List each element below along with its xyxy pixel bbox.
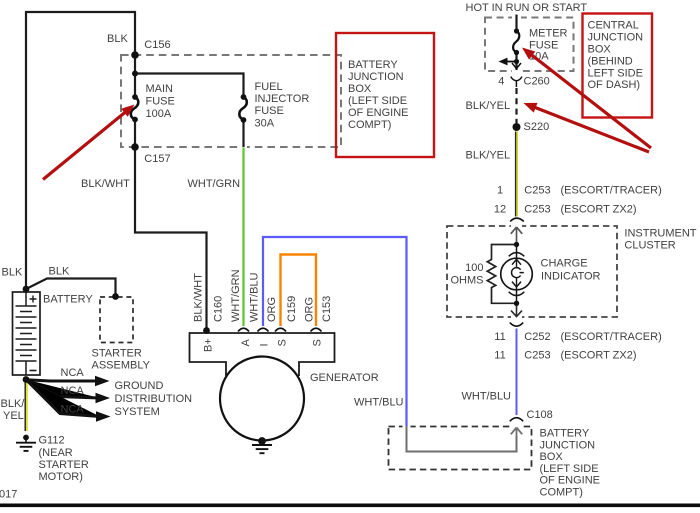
svg-text:OF DASH): OF DASH) (588, 79, 641, 91)
NCA line 1 to ground distribution (26, 380, 99, 381)
wire hot feed into central junction box (515, 15, 517, 32)
wire node C156 to main fuse branch point (134, 55, 136, 97)
wire BLK/YEL striped S220 to C253 (black stripe) (515, 132, 517, 217)
svg-text:30A: 30A (255, 118, 275, 130)
svg-text:I: I (259, 343, 271, 346)
node B+ at C160 (203, 327, 210, 334)
wire fuel injector fuse bottom to box edge (242, 120, 244, 147)
svg-text:BOX: BOX (348, 83, 372, 95)
svg-text:100A: 100A (146, 108, 172, 120)
node C156 (131, 51, 139, 59)
battery junction box (bottom, dashed outline) (389, 427, 532, 470)
svg-text:JUNCTION: JUNCTION (348, 71, 404, 83)
connector C260 symbol (female funnel) (511, 77, 522, 87)
generator terminal strip (190, 333, 335, 376)
svg-text:GROUND: GROUND (115, 380, 164, 392)
connector arc at generator A pin (238, 328, 249, 331)
svg-text:NCA: NCA (61, 367, 85, 379)
main fuse terminals (132, 94, 138, 100)
svg-text:DISTRIBUTION: DISTRIBUTION (115, 393, 193, 405)
generator case ground symbol (252, 441, 272, 454)
wire meter fuse to splice (515, 53, 517, 71)
svg-text:C157: C157 (144, 153, 170, 165)
svg-text:CLUSTER: CLUSTER (624, 240, 675, 252)
wire BLK top-left loop (battery positive feed) (26, 12, 135, 289)
node C157 (131, 143, 139, 151)
battery symbol (13, 292, 41, 375)
svg-text:INJECTOR: INJECTOR (255, 93, 310, 105)
svg-text:INDICATOR: INDICATOR (541, 271, 601, 283)
svg-text:11: 11 (494, 331, 505, 343)
svg-text:C252: C252 (524, 331, 550, 343)
svg-text:C108: C108 (527, 409, 553, 421)
svg-text:(ESCORT ZX2): (ESCORT ZX2) (561, 204, 637, 216)
connector C253 symbol (female cap above instrument cluster) (510, 218, 524, 221)
svg-text:C260: C260 (524, 76, 550, 88)
generator body (circle) (220, 357, 304, 441)
svg-text:BATTERY: BATTERY (540, 428, 590, 440)
svg-text:BLK/YEL: BLK/YEL (466, 100, 511, 112)
wire BLK/WHT from C157 to generator B+ (135, 147, 207, 330)
svg-text:BLK/WHT: BLK/WHT (81, 178, 130, 190)
svg-text:11: 11 (494, 350, 505, 362)
svg-text:WHT/GRN: WHT/GRN (188, 178, 241, 190)
svg-text:G112: G112 (39, 435, 65, 447)
annotation box: battery junction box callout (336, 33, 434, 157)
svg-text:STARTER: STARTER (39, 459, 89, 471)
svg-text:BOX: BOX (588, 44, 612, 56)
svg-text:YEL: YEL (3, 410, 24, 422)
svg-text:C253: C253 (524, 204, 550, 216)
node battery positive (23, 286, 30, 293)
svg-text:C160: C160 (213, 296, 225, 322)
svg-text:BOX: BOX (540, 451, 564, 463)
bottom rule bar (0, 504, 700, 508)
svg-text:S: S (312, 339, 324, 346)
wire BLK/YEL battery negative to G112 (yellow stripe) (26, 381, 28, 431)
node charge indicator bottom (514, 301, 519, 306)
connector arc at generator I pin (258, 328, 269, 331)
svg-text:BLK/YEL: BLK/YEL (466, 150, 511, 162)
svg-text:LEFT SIDE: LEFT SIDE (588, 68, 643, 80)
svg-text:COMPT): COMPT) (348, 119, 391, 131)
svg-text:ORG: ORG (266, 297, 278, 322)
svg-text:BLK/: BLK/ (1, 398, 26, 410)
svg-text:MOTOR): MOTOR) (39, 471, 83, 483)
svg-text:OF ENGINE: OF ENGINE (348, 107, 409, 119)
wire BLK battery to starter assembly (26, 279, 116, 297)
meter fuse 10A element (S-curve) (513, 31, 519, 53)
wire WHT/GRN fuse box to generator A terminal (242, 148, 244, 327)
svg-text:ORG: ORG (304, 297, 316, 322)
connector arc at generator S pin C153 (311, 328, 322, 331)
node battery negative (23, 376, 30, 383)
svg-text:B+: B+ (203, 338, 215, 352)
svg-text:1: 1 (497, 184, 503, 196)
svg-text:(ESCORT/TRACER): (ESCORT/TRACER) (561, 184, 662, 196)
svg-text:C153: C153 (321, 296, 333, 322)
wire BLK/YEL striped S220 to C253 (yellow stripe) (516, 132, 518, 217)
node S220 (513, 123, 521, 131)
svg-text:WHT/BLU: WHT/BLU (462, 391, 512, 403)
connector arc at generator S pin C159 (275, 328, 286, 331)
svg-text:C253: C253 (524, 350, 550, 362)
svg-text:BATTERY: BATTERY (43, 294, 93, 306)
svg-text:100: 100 (465, 262, 483, 274)
annotation arrow at meter fuse (530, 53, 651, 148)
instrument cluster (dashed outline) (447, 226, 617, 317)
svg-text:BLK/WHT: BLK/WHT (193, 273, 205, 322)
wire WHT/BLU instrument cluster to C108 (blue) (516, 329, 518, 416)
svg-text:FUSE: FUSE (255, 105, 284, 117)
white gaps where wires cross dashed box edges (240, 16, 522, 428)
svg-text:CENTRAL: CENTRAL (588, 20, 639, 32)
svg-text:FUEL: FUEL (255, 81, 283, 93)
svg-text:ASSEMBLY: ASSEMBLY (92, 360, 151, 372)
wire BLK/YEL dashed segment C260 to S220 (515, 88, 517, 123)
svg-text:METER: METER (529, 28, 568, 40)
svg-text:(NEAR: (NEAR (39, 447, 73, 459)
svg-text:CHARGE: CHARGE (541, 258, 588, 270)
wire internal bus inside battery junction box (gray) (407, 426, 517, 452)
svg-text:A: A (240, 339, 252, 347)
node fuse branch (132, 71, 138, 77)
svg-text:OF ENGINE: OF ENGINE (540, 475, 601, 487)
battery junction box (top, dashed outline) (121, 55, 341, 147)
svg-text:S: S (277, 339, 289, 346)
fuel injector fuse terminals (241, 94, 247, 100)
annotation arrow at main fuse (43, 111, 127, 180)
wire exit arrow through C108 (gray, open arrowhead up) (511, 428, 522, 437)
node G112 (23, 435, 29, 441)
svg-text:S220: S220 (524, 121, 550, 133)
node charge indicator top (514, 242, 519, 247)
svg-text:BATTERY: BATTERY (348, 59, 398, 71)
svg-text:FUSE: FUSE (146, 96, 175, 108)
svg-text:WHT/BLU: WHT/BLU (249, 272, 261, 322)
wire BLK/YEL battery negative to G112 (black stripe) (24, 381, 26, 431)
charge indicator lamp (circle with filament) (501, 245, 533, 304)
svg-text:4: 4 (498, 76, 504, 88)
svg-text:HOT IN RUN OR START: HOT IN RUN OR START (466, 2, 588, 14)
resistor 100 OHMS (zigzag) with branch wires (487, 245, 516, 304)
svg-text:OHMS: OHMS (451, 275, 484, 287)
central junction box (dashed outline, hot-at-all-times bus) (485, 18, 574, 72)
svg-text:JUNCTION: JUNCTION (588, 32, 644, 44)
svg-text:NCA: NCA (61, 385, 85, 397)
svg-text:C156: C156 (144, 39, 170, 51)
wire ORG jumper between S terminals C159 to C153 (281, 255, 317, 327)
svg-text:COMPT): COMPT) (540, 487, 583, 499)
svg-text:(BEHIND: (BEHIND (588, 56, 633, 68)
main fuse 100A element (S-curve) (131, 97, 139, 120)
ground G112 symbol (16, 438, 36, 451)
battery - terminal label (30, 370, 37, 372)
NCA line 3 to ground distribution (26, 380, 100, 417)
connector entry arrow into instrument cluster (open arrowhead up) (511, 227, 522, 245)
battery + terminal label (30, 296, 37, 303)
svg-text:WHT/GRN: WHT/GRN (230, 269, 242, 322)
annotation box: central junction box callout (583, 14, 653, 118)
connector C108 symbol (female cap above battery junction box) (510, 418, 523, 422)
svg-text:BLK: BLK (49, 266, 70, 278)
exit arrow down through CJB edge (open arrowhead) (512, 63, 521, 69)
exit arrow down through instrument cluster edge (511, 303, 522, 316)
svg-text:STARTER: STARTER (92, 348, 142, 360)
node splice in CJB (514, 59, 519, 64)
node generator ground (258, 437, 266, 445)
meter fuse terminals (514, 28, 519, 33)
svg-text:BLK: BLK (2, 267, 23, 279)
svg-text:017: 017 (0, 489, 17, 501)
svg-text:NCA: NCA (61, 404, 85, 416)
wire WHT/BLU generator I terminal to battery junction box (263, 237, 407, 426)
annotation arrow at BLK/YEL wire (533, 107, 649, 153)
splice branch arrow (points left inside central junction box) (506, 61, 517, 63)
svg-text:GENERATOR: GENERATOR (310, 372, 379, 384)
svg-text:INSTRUMENT: INSTRUMENT (624, 227, 696, 239)
wire branch to fuel injector fuse (135, 74, 244, 98)
svg-text:(LEFT SIDE: (LEFT SIDE (348, 95, 407, 107)
svg-text:JUNCTION: JUNCTION (540, 439, 596, 451)
svg-text:(LEFT SIDE: (LEFT SIDE (540, 463, 599, 475)
svg-text:(ESCORT ZX2): (ESCORT ZX2) (561, 350, 637, 362)
node starter assembly feed (112, 293, 119, 300)
svg-text:(ESCORT/TRACER): (ESCORT/TRACER) (561, 331, 662, 343)
svg-text:12: 12 (494, 204, 506, 216)
svg-text:MAIN: MAIN (146, 83, 174, 95)
NCA line 2 to ground distribution (26, 380, 100, 399)
svg-text:SYSTEM: SYSTEM (115, 406, 160, 418)
fuel injector fuse 30A element (S-curve) (239, 97, 247, 120)
starter assembly (dashed outline) (100, 297, 133, 343)
wire main fuse bottom to C157 (134, 120, 136, 148)
svg-text:C159: C159 (286, 296, 298, 322)
connector C252 symbol (female cap below instrument cluster) (510, 323, 523, 327)
svg-text:BLK: BLK (107, 33, 128, 45)
svg-text:C253: C253 (524, 184, 550, 196)
svg-text:WHT/BLU: WHT/BLU (354, 397, 404, 409)
